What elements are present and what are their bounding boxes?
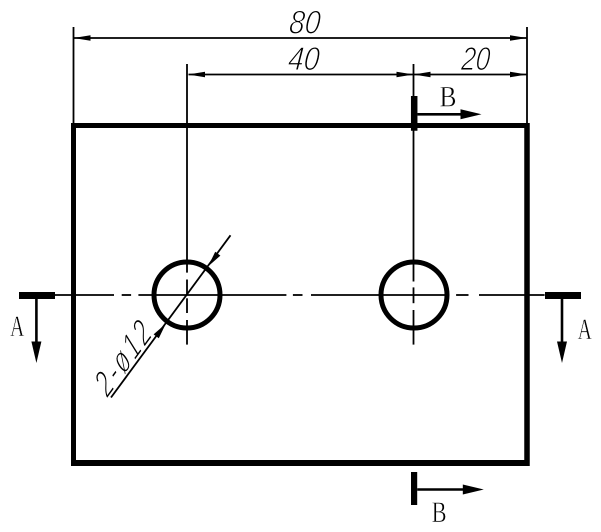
svg-text:20: 20	[459, 41, 492, 78]
svg-text:B: B	[439, 80, 456, 113]
svg-text:A: A	[578, 313, 593, 346]
svg-text:80: 80	[288, 3, 323, 41]
svg-text:B: B	[432, 495, 447, 529]
svg-text:40: 40	[287, 40, 322, 78]
svg-text:A: A	[10, 310, 25, 343]
